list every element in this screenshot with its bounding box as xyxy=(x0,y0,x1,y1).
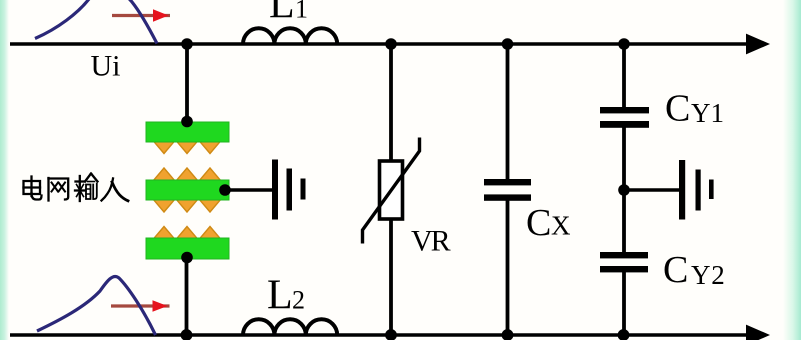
node: Cx top junction (x=507.5) xyxy=(502,38,514,50)
svg-text:1: 1 xyxy=(295,0,308,24)
char 入 xyxy=(102,179,114,201)
surge arrester (3-electrode discharge tube) xyxy=(146,122,229,259)
char 网 xyxy=(47,178,49,201)
node: VR top junction (x=391) xyxy=(385,38,397,50)
node on plate E2 right end xyxy=(219,184,231,196)
svg-text:2: 2 xyxy=(292,286,305,315)
svg-text:Y1: Y1 xyxy=(691,98,724,128)
wire: Cx branch bottom xyxy=(506,200,510,335)
wire: CY middle segment xyxy=(622,127,626,253)
capacitor CY2 xyxy=(600,252,648,272)
inductor L2 xyxy=(243,319,337,335)
svg-text:C: C xyxy=(663,249,688,291)
svg-text:L: L xyxy=(269,0,295,28)
node: VR bottom junction xyxy=(385,329,397,340)
svg-text:Ui: Ui xyxy=(91,50,121,83)
capacitor CY1 xyxy=(600,107,649,128)
node: CY midpoint junction xyxy=(618,184,630,196)
spark gap teeth row above electrode E2 xyxy=(153,168,176,182)
node: top junction A (x=187) xyxy=(181,38,193,50)
svg-text:C: C xyxy=(526,202,551,244)
node: bottom junction (x=186.5) xyxy=(181,329,193,340)
wire: bottom line (neutral) xyxy=(10,333,747,337)
wire: E3 down to bottom line xyxy=(185,259,189,335)
wire: VR branch top xyxy=(389,44,393,161)
svg-text:L: L xyxy=(267,273,293,319)
node on plate E1 xyxy=(181,116,193,128)
ground (right earth symbol) xyxy=(679,160,714,220)
arrow surge direction bottom xyxy=(111,300,170,312)
svg-text:Y2: Y2 xyxy=(691,260,726,290)
electrode plate E2 xyxy=(146,180,229,200)
wire: branch down to arrester top plate xyxy=(185,44,189,118)
svg-text:X: X xyxy=(551,211,571,241)
surge waveform bottom input pulse xyxy=(37,276,156,335)
arrowhead bottom line output xyxy=(746,325,770,340)
electrode plate E3 xyxy=(146,238,229,259)
spark gap teeth row below electrode E1 xyxy=(153,140,222,240)
wire: VR branch bottom xyxy=(389,219,393,335)
varistor VR xyxy=(363,138,420,244)
surge waveform Ui (top input pulse) xyxy=(35,0,157,44)
inductor L1 xyxy=(243,28,337,44)
label 电网输入 (mains input), drawn strokes xyxy=(24,174,129,202)
wire: top line (phase) xyxy=(10,42,747,46)
node: Cx bottom junction xyxy=(502,329,514,340)
char 电 xyxy=(30,177,32,197)
arrowhead top line output xyxy=(746,34,770,55)
capacitor Cx xyxy=(484,179,531,201)
char 输 xyxy=(76,180,85,182)
ground (left earth symbol) xyxy=(272,160,306,220)
node: CY bottom junction xyxy=(618,329,630,340)
spark gap teeth row above electrode E3 xyxy=(153,227,176,241)
arrow surge direction top xyxy=(112,9,170,22)
wire: CY branch bottom xyxy=(622,272,626,335)
electrode plate E1 xyxy=(146,122,229,142)
wire: CY branch top xyxy=(622,44,626,108)
node on plate E3 xyxy=(181,252,193,264)
svg-text:VR: VR xyxy=(411,225,451,258)
node: CY top junction (x=624) xyxy=(618,38,630,50)
wire: E2 to earth xyxy=(225,188,272,191)
svg-text:C: C xyxy=(665,88,690,130)
spark gap teeth row below electrode E2 xyxy=(153,199,176,213)
wire: Cx branch top xyxy=(506,44,510,180)
wire: CY midpoint to earth xyxy=(624,188,679,191)
